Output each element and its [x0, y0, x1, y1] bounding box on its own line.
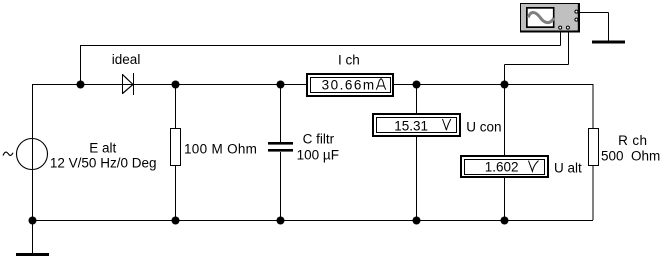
wire resistor Rch branch — [592, 84, 594, 220]
diode D1 — [123, 73, 134, 95]
source E alt tilde — [3, 152, 13, 155]
voltmeter U alt inner box — [464, 159, 545, 175]
voltmeter U alt outer box — [460, 155, 549, 178]
wire scope channel B horizontal — [505, 64, 569, 66]
wire scope channel A vertical at node — [80, 45, 82, 84]
capacitor C1 plates — [268, 142, 293, 152]
voltmeter U alt unit glyph V — [529, 161, 539, 172]
wire resistor R1 branch — [175, 84, 177, 220]
node junction top C — [277, 81, 285, 89]
svg-text:100 µF: 100 µF — [297, 147, 339, 162]
wire scope ground horizontal — [578, 12, 609, 14]
node junction bottom C — [277, 217, 285, 225]
resistor Rch body — [589, 129, 599, 166]
voltmeter U con outer box — [372, 113, 461, 137]
wire voltmeter U con branch upper — [416, 84, 418, 113]
ground symbol left — [16, 253, 49, 256]
wire scope channel A horizontal — [80, 45, 561, 47]
wire ground left stub — [32, 220, 34, 253]
node junction top A — [77, 81, 85, 89]
oscilloscope screen frame — [526, 7, 555, 28]
wire voltmeter U alt branch upper — [504, 84, 506, 155]
wire voltmeter U con branch lower — [416, 137, 418, 220]
oscilloscope trace — [528, 12, 554, 22]
svg-text:100 M Ohm: 100 M Ohm — [184, 142, 257, 157]
wire scope ground vertical — [608, 13, 610, 42]
wire source branch — [32, 84, 34, 220]
svg-text:U alt: U alt — [554, 160, 582, 175]
oscilloscope terminal right top — [575, 10, 578, 13]
svg-text:R ch: R ch — [618, 133, 647, 148]
source E alt circle — [17, 139, 48, 170]
svg-text:30.66m: 30.66m — [322, 77, 376, 92]
wire scope channel B drop to node — [504, 65, 506, 85]
svg-text:I ch: I ch — [338, 52, 360, 67]
ground symbol at scope — [592, 41, 625, 44]
wire bottom bus — [32, 220, 593, 222]
svg-text:C filtr: C filtr — [303, 131, 335, 146]
resistor R1 body — [171, 129, 181, 166]
oscilloscope terminal bottom B — [566, 26, 569, 29]
node junction top Ualt — [501, 81, 509, 89]
wire voltmeter U alt branch lower — [504, 178, 506, 220]
voltmeter U con inner box — [376, 117, 457, 133]
wire capacitor branch lower — [280, 152, 282, 220]
wire top bus — [32, 84, 593, 86]
svg-text:E alt: E alt — [89, 141, 116, 156]
node junction top R1 — [172, 81, 180, 89]
wire scope channel A vertical at scope — [560, 29, 562, 46]
node junction top Ucon — [413, 81, 421, 89]
node junction bottom Ucon — [413, 217, 421, 225]
svg-text:15.31: 15.31 — [394, 118, 428, 133]
node junction bottom Ualt — [501, 217, 509, 225]
svg-text:1.602: 1.602 — [485, 159, 519, 174]
oscilloscope body panel — [521, 4, 578, 31]
oscilloscope screen — [528, 9, 553, 27]
oscilloscope body frame — [520, 3, 580, 33]
node junction bottom R1 — [172, 217, 180, 225]
ammeter I ch outer box — [306, 73, 394, 97]
oscilloscope terminal right bottom — [575, 18, 578, 21]
wire scope channel B vertical at scope — [568, 29, 570, 65]
wire capacitor branch upper — [280, 84, 282, 142]
svg-text:U con: U con — [466, 120, 501, 135]
ammeter unit glyph A — [376, 79, 386, 90]
oscilloscope terminal bottom A — [559, 26, 562, 29]
node junction bottom source — [29, 217, 37, 225]
svg-text:ideal: ideal — [112, 52, 141, 67]
voltmeter U con unit glyph V — [443, 119, 451, 130]
ammeter I ch inner box — [310, 77, 391, 93]
svg-text:500 Ohm: 500 Ohm — [601, 149, 660, 164]
svg-text:12 V/50 Hz/0 Deg: 12 V/50 Hz/0 Deg — [50, 156, 157, 171]
